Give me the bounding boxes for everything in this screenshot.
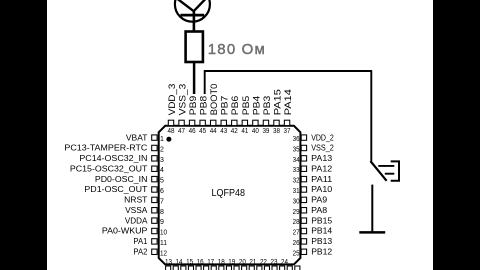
svg-text:29: 29	[293, 209, 300, 216]
pin 36 pad	[301, 135, 306, 140]
svg-text:46: 46	[189, 128, 196, 135]
svg-text:PA14: PA14	[283, 89, 293, 115]
svg-text:VSS_2: VSS_2	[311, 143, 334, 153]
svg-text:14: 14	[176, 259, 183, 266]
left pin name labels	[64, 132, 148, 256]
svg-text:180 Ом: 180 Ом	[208, 41, 265, 58]
svg-text:41: 41	[241, 128, 248, 135]
pin 25 pad	[301, 249, 306, 254]
bottom pad 15	[272, 266, 277, 270]
svg-text:NRST: NRST	[124, 195, 148, 205]
svg-text:48: 48	[168, 128, 175, 135]
svg-text:PB8: PB8	[199, 96, 209, 116]
svg-text:20: 20	[239, 259, 246, 266]
svg-text:PB5: PB5	[241, 96, 251, 116]
bottom pad 17	[287, 266, 292, 270]
svg-text:LQFP48: LQFP48	[212, 187, 246, 199]
svg-text:44: 44	[210, 128, 217, 135]
svg-text:3: 3	[160, 157, 164, 164]
svg-text:PA12: PA12	[311, 163, 332, 173]
svg-text:16: 16	[197, 259, 204, 266]
pin 42 pad	[232, 120, 237, 125]
svg-text:39: 39	[262, 128, 269, 135]
svg-text:BOOT0: BOOT0	[209, 84, 219, 116]
svg-text:PB4: PB4	[251, 96, 261, 116]
svg-text:PB12: PB12	[311, 246, 332, 256]
bottom pad 5	[196, 266, 201, 270]
svg-text:PA13: PA13	[311, 153, 332, 163]
pin 1 pad	[152, 135, 157, 140]
pin 5 pad	[152, 176, 157, 181]
bottom pad 18	[295, 266, 300, 270]
pin 31 pad	[301, 187, 306, 192]
svg-text:PA15: PA15	[272, 89, 282, 115]
pin 2 pad	[152, 145, 157, 150]
pin 11 pad	[152, 239, 157, 244]
right pin squares	[301, 135, 306, 255]
bottom pad 4	[188, 266, 193, 270]
wire button net horizontal	[205, 71, 372, 94]
svg-text:47: 47	[178, 128, 185, 135]
svg-text:31: 31	[293, 188, 300, 195]
bottom pad 8	[219, 266, 224, 270]
pin 48 pad	[168, 120, 173, 125]
svg-text:PC14-OSC32_IN: PC14-OSC32_IN	[79, 153, 147, 163]
svg-text:45: 45	[199, 128, 206, 135]
switch S1 plunger line upper	[378, 165, 394, 167]
pin 35 pad	[301, 145, 306, 150]
svg-text:26: 26	[293, 240, 300, 247]
pin 9 pad	[152, 218, 157, 223]
pin 8 pad	[152, 208, 157, 213]
bottom pin numbers	[165, 259, 288, 266]
pin 1 marker dot	[166, 137, 171, 142]
svg-text:PA0-WKUP: PA0-WKUP	[102, 226, 148, 236]
svg-text:24: 24	[281, 259, 288, 266]
IC U1 LQFP48 body	[159, 126, 301, 265]
switch S1 plunger line lower	[385, 173, 395, 175]
svg-text:PA11: PA11	[311, 174, 332, 184]
svg-text:6: 6	[160, 188, 164, 195]
svg-text:9: 9	[160, 219, 164, 226]
svg-text:43: 43	[220, 128, 227, 135]
svg-text:21: 21	[249, 259, 256, 266]
svg-text:PA1: PA1	[133, 236, 147, 246]
LED D1 circle	[175, 0, 210, 22]
bottom pad 16	[280, 266, 285, 270]
svg-text:PB3: PB3	[262, 96, 272, 116]
LED D1 triangle	[178, 0, 206, 11]
svg-text:VDDA: VDDA	[125, 215, 148, 225]
pin 29 pad	[301, 208, 306, 213]
svg-text:18: 18	[218, 259, 225, 266]
pin 40 pad	[253, 120, 258, 125]
bottom pin squares (dense artifact row as in source frame)	[166, 266, 300, 270]
pin 4 pad	[152, 166, 157, 171]
svg-text:PB7: PB7	[220, 96, 230, 116]
svg-text:28: 28	[293, 219, 300, 226]
pin 7 pad	[152, 197, 157, 202]
switch S1 lever	[370, 161, 386, 181]
bottom pad 13	[257, 266, 262, 270]
svg-text:42: 42	[231, 128, 238, 135]
svg-text:2: 2	[160, 146, 164, 153]
svg-text:PC15-OSC32_OUT: PC15-OSC32_OUT	[70, 163, 148, 173]
svg-text:10: 10	[160, 230, 167, 237]
pin 27 pad	[301, 228, 306, 233]
pin 32 pad	[301, 176, 306, 181]
svg-text:PC13-TAMPER-RTC: PC13-TAMPER-RTC	[64, 143, 147, 153]
svg-text:VDD_3: VDD_3	[167, 84, 177, 116]
pin 34 pad	[301, 156, 306, 161]
svg-text:38: 38	[273, 128, 280, 135]
svg-text:36: 36	[293, 136, 300, 143]
svg-text:34: 34	[293, 157, 300, 164]
pin 6 pad	[152, 187, 157, 192]
pin 30 pad	[301, 197, 306, 202]
pin 47 pad	[179, 120, 184, 125]
svg-text:5: 5	[160, 178, 164, 185]
bottom pad 7	[211, 266, 216, 270]
svg-text:VDD_2: VDD_2	[311, 132, 334, 142]
svg-text:33: 33	[293, 167, 300, 174]
svg-text:27: 27	[293, 230, 300, 237]
svg-text:15: 15	[186, 259, 193, 266]
left letterbox bar	[0, 0, 47, 270]
pin 28 pad	[301, 218, 306, 223]
pin 41 pad	[242, 120, 247, 125]
resistor R1 body	[186, 32, 203, 63]
svg-text:30: 30	[293, 198, 300, 205]
left pin numbers	[160, 136, 167, 257]
svg-text:PB6: PB6	[230, 96, 240, 116]
bottom pad 14	[264, 266, 269, 270]
svg-text:35: 35	[293, 146, 300, 153]
svg-text:37: 37	[284, 128, 291, 135]
svg-text:VSSA: VSSA	[125, 205, 147, 215]
pin 44 pad	[211, 120, 216, 125]
bottom pad 11	[242, 266, 247, 270]
pin 33 pad	[301, 166, 306, 171]
pin 43 pad	[221, 120, 226, 125]
pin 10 pad	[152, 228, 157, 233]
top pin squares	[168, 120, 289, 125]
pin 39 pad	[263, 120, 268, 125]
pin 12 pad	[152, 249, 157, 254]
svg-text:11: 11	[160, 240, 167, 247]
switch S1 actuator bracket	[391, 161, 399, 180]
pin 45 pad	[200, 120, 205, 125]
pin 3 pad	[152, 156, 157, 161]
bottom pad 3	[181, 266, 186, 270]
svg-text:25: 25	[293, 250, 300, 257]
top pin name labels (rotated)	[167, 84, 293, 116]
svg-text:PB14: PB14	[311, 226, 332, 236]
bottom pad 12	[249, 266, 254, 270]
wire LED to resistor	[193, 12, 196, 33]
svg-text:8: 8	[160, 209, 164, 216]
svg-text:PA2: PA2	[133, 246, 147, 256]
left pin squares	[152, 135, 157, 255]
pin 26 pad	[301, 239, 306, 244]
svg-text:PB13: PB13	[311, 236, 332, 246]
right pin numbers	[293, 136, 300, 257]
svg-text:PA8: PA8	[311, 205, 327, 215]
wire resistor to pin PB9	[193, 62, 196, 94]
svg-text:PA10: PA10	[311, 184, 332, 194]
bottom pad 1	[166, 266, 171, 270]
wire switch to ground	[371, 185, 373, 233]
svg-text:PB9: PB9	[188, 96, 198, 116]
svg-text:19: 19	[228, 259, 235, 266]
ground symbol	[359, 231, 385, 234]
pin 37 pad	[284, 120, 289, 125]
svg-text:22: 22	[260, 259, 267, 266]
LED D1 cathode bar	[180, 14, 204, 17]
svg-text:PD0-OSC_IN: PD0-OSC_IN	[95, 174, 148, 184]
bottom pad 10	[234, 266, 239, 270]
top pin numbers	[168, 128, 291, 135]
right letterbox bar	[433, 0, 480, 270]
bottom pad 9	[226, 266, 231, 270]
svg-text:4: 4	[160, 167, 164, 174]
pin 46 pad	[189, 120, 194, 125]
wire button net vertical right	[370, 70, 372, 161]
svg-text:VBAT: VBAT	[126, 132, 148, 142]
bottom pad 6	[204, 266, 209, 270]
svg-text:VSS_3: VSS_3	[177, 84, 187, 116]
svg-text:12: 12	[160, 250, 167, 257]
right pin name labels	[311, 132, 334, 256]
svg-text:17: 17	[207, 259, 214, 266]
svg-text:1: 1	[160, 136, 164, 143]
svg-text:13: 13	[165, 259, 172, 266]
pin 38 pad	[274, 120, 279, 125]
svg-text:PB15: PB15	[311, 215, 332, 225]
svg-text:PA9: PA9	[311, 195, 327, 205]
svg-text:32: 32	[293, 178, 300, 185]
svg-text:23: 23	[271, 259, 278, 266]
svg-text:PD1-OSC_OUT: PD1-OSC_OUT	[84, 184, 148, 194]
svg-text:7: 7	[160, 198, 164, 205]
bottom pad 2	[173, 266, 178, 270]
svg-text:40: 40	[252, 128, 259, 135]
